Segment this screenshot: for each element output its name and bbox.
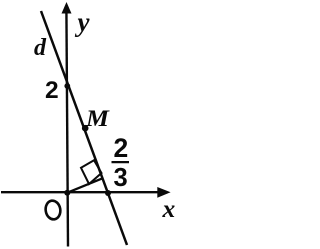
label x [163, 196, 176, 222]
point where d crosses x-axis [105, 190, 111, 196]
point M [82, 125, 89, 132]
fraction bar of 2/3 [112, 161, 130, 163]
line d [41, 11, 127, 245]
label O (ellipse ring) [44, 200, 61, 221]
origin point O [64, 190, 70, 196]
label M [86, 107, 109, 130]
y-axis [62, 2, 72, 247]
x-axis [1, 187, 171, 198]
label d [34, 36, 46, 60]
point (0;2) on y-axis [64, 83, 70, 89]
right-angle marker [81, 160, 102, 184]
label y [78, 9, 90, 36]
fraction numerator 2 [114, 135, 129, 162]
perpendicular segment from O to foot on d [67, 178, 102, 192]
fraction denominator 3 [114, 166, 128, 192]
label 2 (y-intercept) [45, 79, 59, 104]
